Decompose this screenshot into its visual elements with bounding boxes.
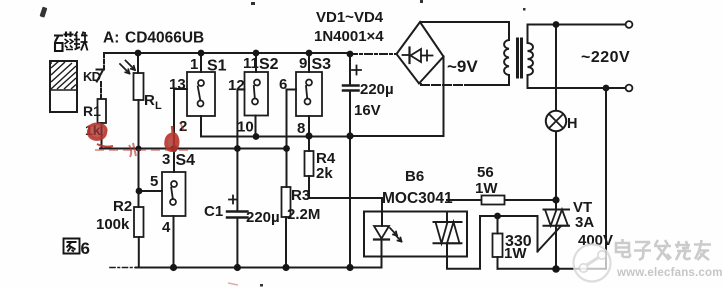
analog switch S1 xyxy=(200,53,202,72)
svg-text:5: 5 xyxy=(150,173,158,190)
watermark elecfans xyxy=(574,245,611,282)
svg-text:KD: KD xyxy=(83,69,101,84)
wire right side vertical xyxy=(605,88,607,269)
wire S1 pin2 xyxy=(200,116,202,137)
resistor 330 1W xyxy=(497,216,499,234)
bridge rectifier VD1-VD4 xyxy=(397,22,444,84)
wire minus to bridge xyxy=(350,57,444,137)
wire secondary bottom to terminal xyxy=(528,75,626,88)
resistor R3 xyxy=(286,149,288,188)
triac VT xyxy=(555,200,557,210)
svg-text:2: 2 xyxy=(179,118,187,135)
svg-text:4: 4 xyxy=(162,219,171,236)
svg-text:R1: R1 xyxy=(83,103,101,119)
wire top rail dash-dot to bridge xyxy=(350,53,396,55)
transformer T windings xyxy=(504,40,509,75)
svg-text:H: H xyxy=(567,116,577,132)
optocoupler MOC3041 box xyxy=(364,212,467,257)
wire S1 pin13 xyxy=(174,89,187,172)
wire VT gate xyxy=(480,216,561,252)
svg-text:S4: S4 xyxy=(176,152,196,169)
wire 56 line xyxy=(447,199,556,201)
svg-text:220µ: 220µ xyxy=(246,209,280,226)
svg-text:3A: 3A xyxy=(575,214,594,231)
wire line B control node xyxy=(100,148,287,150)
terminal 220V lower xyxy=(626,85,633,92)
svg-text:9: 9 xyxy=(299,55,307,72)
wire ground vertical xyxy=(349,136,351,268)
analog switch S3 xyxy=(308,53,310,72)
svg-text:13: 13 xyxy=(169,76,186,93)
opto triac xyxy=(446,212,448,223)
svg-text:S3: S3 xyxy=(312,56,332,73)
svg-text:S1: S1 xyxy=(207,58,227,75)
svg-text:~9V: ~9V xyxy=(447,57,478,76)
svg-text:MOC3041: MOC3041 xyxy=(382,190,453,207)
analog switch S2 xyxy=(255,53,257,72)
svg-text:1W: 1W xyxy=(475,180,498,197)
opto light arrows xyxy=(390,228,402,242)
wire S3 pin8 xyxy=(308,116,310,136)
svg-text:16V: 16V xyxy=(354,102,381,119)
wire bridge top to transformer xyxy=(421,22,509,40)
svg-text:VD1~VD4: VD1~VD4 xyxy=(316,9,384,26)
capacitor C 220u 16V xyxy=(349,54,351,86)
wire S4 pin5 xyxy=(139,190,162,192)
svg-text:56: 56 xyxy=(477,164,494,181)
wire bottom ground rail xyxy=(110,267,136,269)
svg-text:L: L xyxy=(155,100,162,112)
analog switch S4 xyxy=(162,172,186,216)
svg-text:1: 1 xyxy=(190,56,198,73)
lamp H xyxy=(555,25,557,111)
wire bridge bottom return xyxy=(421,84,468,85)
wire S3 pin6 xyxy=(287,90,297,149)
svg-text:2.2M: 2.2M xyxy=(287,206,320,223)
resistor R1 xyxy=(98,99,107,123)
svg-text:CD4066UB: CD4066UB xyxy=(125,30,204,47)
svg-text:R: R xyxy=(144,92,155,109)
wire secondary top to terminal xyxy=(528,25,626,44)
resistor 56 1W xyxy=(482,196,505,205)
svg-text:6: 6 xyxy=(279,76,287,93)
wire bottom right xyxy=(498,268,607,270)
terminal 220V upper xyxy=(626,21,633,28)
wire S2 pin12 xyxy=(237,90,244,149)
photoresistor RL xyxy=(137,53,139,73)
wire RL/R2 column xyxy=(138,149,140,208)
red pen marks xyxy=(87,122,238,285)
svg-text:R3: R3 xyxy=(291,187,310,204)
svg-text:www.elecfans.com: www.elecfans.com xyxy=(616,267,723,279)
svg-text:1N4001×4: 1N4001×4 xyxy=(314,28,384,45)
resistor R2 xyxy=(134,207,144,237)
svg-text:3: 3 xyxy=(162,151,170,168)
scan specks xyxy=(40,0,526,287)
node labels and values xyxy=(83,9,630,262)
wire S2 pin10 xyxy=(255,116,257,137)
svg-text:~220V: ~220V xyxy=(581,49,630,66)
svg-text:10: 10 xyxy=(237,119,254,136)
svg-text:220µ: 220µ xyxy=(360,81,394,98)
wire S4 pin4 xyxy=(173,216,175,268)
magnet symbol xyxy=(50,61,77,112)
svg-text:11: 11 xyxy=(243,55,259,72)
reed switch KD xyxy=(103,53,105,67)
svg-text:A:: A: xyxy=(103,30,119,47)
svg-text:12: 12 xyxy=(228,77,245,94)
svg-text:C1: C1 xyxy=(204,203,223,220)
svg-text:R2: R2 xyxy=(113,198,132,215)
label figure 6 (pseudo CJK) xyxy=(64,239,80,254)
opto LED xyxy=(374,226,389,239)
svg-text:8: 8 xyxy=(297,120,305,137)
svg-text:B6: B6 xyxy=(405,168,424,185)
watermark text dianzifashaoyou (pseudo CJK light) xyxy=(616,239,711,260)
svg-text:1W: 1W xyxy=(504,245,527,262)
svg-text:2k: 2k xyxy=(316,165,333,182)
light arrows into RL xyxy=(120,61,135,74)
wire top rail xyxy=(104,52,350,54)
svg-text:S2: S2 xyxy=(259,56,279,73)
label magnet (pseudo CJK) xyxy=(54,32,88,52)
svg-text:6: 6 xyxy=(81,239,90,258)
resistor R4 xyxy=(308,136,310,151)
capacitor C1 xyxy=(236,149,238,212)
wire line A pins 2/10/8 xyxy=(201,136,350,138)
svg-text:100k: 100k xyxy=(96,216,130,233)
